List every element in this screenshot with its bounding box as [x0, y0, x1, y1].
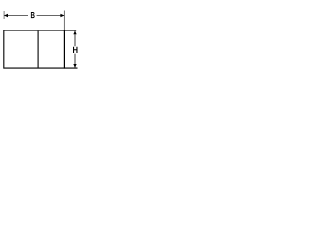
dimension B extension line right	[63, 11, 65, 31]
cistern outline top edge + H top extension line	[4, 29, 77, 31]
dimension B arrow left	[4, 14, 8, 17]
dimension H arrow up	[73, 31, 76, 35]
dimension H line upper segment	[74, 30, 76, 46]
dimension B line right segment	[37, 15, 65, 17]
cistern divider line	[37, 30, 39, 68]
dimension B arrow right	[60, 14, 64, 17]
dimension B extension line left	[3, 11, 5, 19]
dimension B line left segment	[4, 15, 28, 17]
cistern outline bottom edge + H bottom extension line	[4, 67, 78, 69]
label B	[31, 12, 35, 18]
cistern outline right edge	[63, 30, 65, 69]
cistern outline left edge	[3, 30, 5, 69]
dimension H arrow down	[73, 64, 76, 68]
label H	[73, 47, 78, 53]
dimension H line lower segment	[74, 54, 76, 68]
